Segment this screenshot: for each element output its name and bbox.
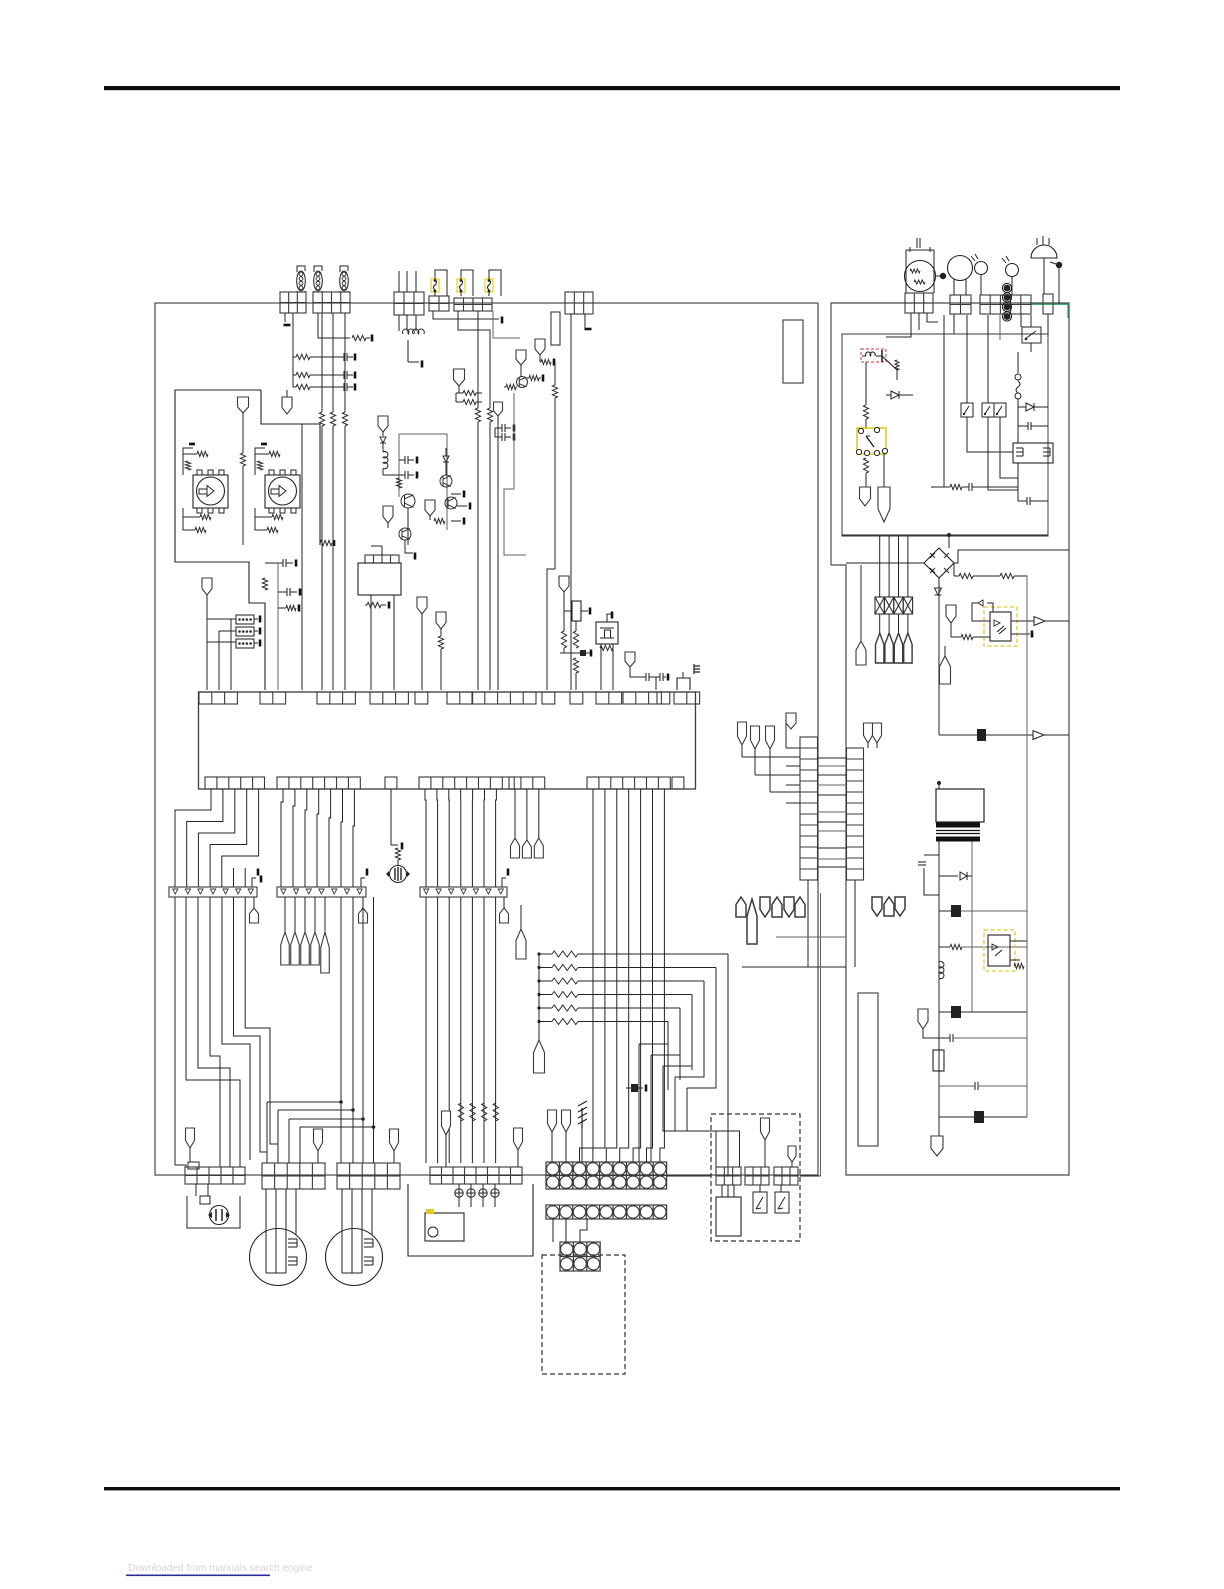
- connector CNB4: [430, 1167, 522, 1184]
- capacitor C8: [1018, 425, 1028, 427]
- wire sense 1: [321, 313, 323, 412]
- capacitor C3: [495, 427, 502, 429]
- diode D1: [380, 437, 386, 443]
- capacitor C2: [278, 591, 287, 593]
- service box (dashed): [542, 1255, 625, 1374]
- wire+flags mid: [514, 789, 516, 838]
- diode D4: [1018, 406, 1026, 408]
- transistor Q1: [517, 377, 528, 388]
- power board inner box: [842, 334, 1048, 536]
- wire M4 feed: [390, 789, 392, 845]
- diode D3: [886, 394, 891, 396]
- capacitor C11: [939, 1085, 975, 1087]
- RN1 drop wires: [727, 954, 729, 1176]
- flag N12: [436, 612, 446, 629]
- thermistor RT1: [236, 615, 254, 624]
- page bottom rule: [104, 1487, 1120, 1490]
- wire bundle A lower: [174, 897, 176, 1165]
- flag N19: [742, 756, 800, 758]
- wire sense col A: [477, 311, 479, 408]
- flag N32: [314, 1129, 323, 1151]
- terminal strip TS3: [560, 1242, 600, 1271]
- component Y2: [572, 601, 581, 621]
- resistor R15: [365, 604, 367, 606]
- motor M2 wiring: [255, 448, 265, 475]
- motor M2: [265, 475, 300, 508]
- switch SW0: [1022, 327, 1041, 343]
- ladder bottom wires: [807, 880, 809, 967]
- flag N22: [864, 723, 873, 743]
- flag N13: [559, 576, 569, 592]
- capacitor C7: [645, 673, 647, 681]
- bead FB5: [626, 1087, 631, 1089]
- capacitor C9: [1018, 500, 1027, 502]
- resistor R17: [954, 575, 959, 577]
- resistor RV9: [561, 631, 566, 648]
- bus bar BB3: [420, 887, 507, 897]
- terminal row: [451, 493, 461, 495]
- terminal dot1: [936, 275, 941, 277]
- buzzer frame: [187, 1196, 240, 1228]
- resistor RV17: [863, 458, 868, 473]
- connector CNR2: [950, 295, 971, 314]
- option box (dashed): [711, 1114, 800, 1241]
- transistor Q6: [881, 350, 883, 362]
- thermistor ticks: [254, 618, 258, 620]
- bridge wiring: [846, 562, 924, 564]
- resistor R18: [1000, 573, 1014, 578]
- flag N33: [390, 1129, 399, 1151]
- flag N5: [494, 402, 503, 416]
- resistor RV10: [573, 631, 578, 648]
- connector CNR4: [1043, 294, 1053, 314]
- relay RL2: [1013, 443, 1053, 463]
- capacitor C1: [265, 562, 283, 564]
- page top rule: [104, 86, 1120, 90]
- wire bundle B: [281, 789, 283, 887]
- connector CNB3: [337, 1163, 400, 1189]
- wire stubs above CN3: [398, 271, 400, 292]
- option box wires: [721, 1185, 723, 1197]
- spin motor SM2: [326, 1229, 383, 1286]
- inductor L3: [340, 271, 349, 291]
- flag N26: [860, 565, 862, 641]
- fuse F3: [485, 279, 493, 292]
- flag N2: [238, 397, 249, 413]
- resistor RV2: [330, 412, 335, 426]
- bar BB3 hook: [502, 878, 506, 887]
- wire+flags below BB2: [284, 897, 286, 932]
- crystal X1: [596, 622, 618, 644]
- resistor RV1: [319, 412, 324, 426]
- resistor R14: [434, 518, 445, 523]
- connector CN6: [473, 298, 492, 311]
- buzzer BZ1: [210, 1206, 229, 1225]
- bar BB2 hook: [361, 878, 365, 887]
- connector CN2: [313, 292, 350, 313]
- power board outline (right): [831, 303, 1069, 1175]
- flag N16: [362, 897, 364, 908]
- flag N36: [548, 1110, 557, 1132]
- capacitor C6: [399, 474, 405, 476]
- wire CN5 link: [458, 311, 490, 345]
- shield box: [783, 320, 803, 383]
- bottom bus: [667, 1175, 711, 1177]
- IC U1 top pins: [199, 692, 237, 704]
- resistor RV16: [863, 405, 868, 419]
- sensor body: [716, 1197, 741, 1236]
- flag N37: [562, 1110, 571, 1132]
- wire CN2 stub: [318, 313, 350, 338]
- wire CN7 drops: [570, 314, 572, 690]
- resistor RV6: [554, 362, 556, 385]
- flag N10: [425, 500, 435, 516]
- wire bundle A: [175, 789, 211, 887]
- connector CNR3: [980, 295, 1031, 314]
- resistor RV8: [438, 636, 443, 649]
- bead FB1: [939, 734, 977, 736]
- wire CN1 drop: [292, 313, 294, 387]
- ground lugs: [1004, 285, 1011, 292]
- terminal strip TS2: [546, 1205, 667, 1219]
- connector CNO3: [774, 1167, 798, 1185]
- resistor RV11: [573, 658, 578, 673]
- bead FB2: [939, 910, 951, 912]
- motor M1: [193, 475, 228, 508]
- resistor R7: [262, 578, 267, 590]
- flag N20: [755, 774, 800, 776]
- wire gray drop: [277, 563, 279, 690]
- driver block outline: [175, 390, 265, 690]
- connector CNB1: [185, 1167, 245, 1184]
- connector CN3: [394, 292, 424, 315]
- fuse F1: [431, 279, 439, 292]
- flag N3: [202, 578, 212, 595]
- bell BZ2: [1031, 245, 1057, 258]
- IC U1 body: [199, 692, 696, 789]
- switch SW1: [961, 403, 973, 417]
- flag N17: [503, 897, 505, 908]
- bus bar BB2: [277, 887, 366, 897]
- wire bundle D: [580, 789, 594, 1162]
- res-cap link: [943, 315, 945, 487]
- thermistor RT2: [236, 627, 254, 636]
- flag N8: [378, 416, 388, 432]
- inductor L1: [297, 271, 306, 291]
- flag N38: [761, 1118, 770, 1140]
- wire CN4 link: [433, 311, 499, 319]
- ladder rungs: [818, 757, 847, 759]
- flag N34: [442, 1111, 451, 1135]
- arrow out1: [1033, 731, 1044, 740]
- wire sense 3: [344, 313, 346, 412]
- wire bundle C: [425, 789, 426, 887]
- bead FB3: [939, 1011, 951, 1013]
- connector CN7: [565, 292, 593, 314]
- net trace (green): [1031, 303, 1068, 305]
- connector CNO2: [745, 1167, 769, 1185]
- thermistor RT3: [236, 639, 254, 648]
- flag N23: [873, 723, 882, 743]
- footer link underline: [126, 1575, 270, 1577]
- wire CNR2 stubs: [953, 314, 955, 334]
- resistor R11: [504, 386, 506, 388]
- switch SW5: [775, 1192, 789, 1213]
- transformer T1: [936, 789, 984, 822]
- opto U3: [984, 930, 1015, 971]
- chassis ground: [581, 1128, 583, 1162]
- flag N28: [944, 646, 946, 656]
- inductor L6: [939, 962, 944, 979]
- fan motor FM1: [905, 261, 936, 292]
- component K1: [551, 312, 560, 345]
- varistor bank: [875, 597, 884, 614]
- wire bundle C2: [425, 897, 427, 1163]
- flag N21: [770, 791, 800, 793]
- wire JU1 col: [865, 362, 867, 405]
- inductor L5: [383, 452, 388, 469]
- flag N4: [454, 369, 465, 386]
- flag N24: [860, 487, 871, 506]
- header ladder CN10: [800, 737, 818, 880]
- flag N11: [417, 597, 427, 614]
- bridge BR1: [924, 548, 954, 578]
- resistor R6: [320, 540, 332, 545]
- svg-text:Downloaded from manuals search: Downloaded from manuals search engine: [128, 1563, 313, 1574]
- spin motor SM1: [250, 1229, 307, 1286]
- flag N29: [918, 1009, 928, 1029]
- motor circle M3: [948, 256, 973, 281]
- relay RL1: [857, 428, 886, 454]
- pump motor M4: [390, 866, 407, 883]
- relay K2 pins: [365, 555, 399, 563]
- fuse F4: [933, 1050, 944, 1071]
- switch SW4: [753, 1192, 767, 1213]
- connector CNO1: [716, 1167, 741, 1185]
- capacitor C5: [399, 459, 405, 461]
- wire sense col B: [489, 345, 491, 408]
- display frame: [408, 1184, 533, 1256]
- right trunk: [1026, 576, 1028, 1117]
- wire CNR3 stubs: [1020, 314, 1022, 327]
- wire CN1 stub: [284, 313, 286, 322]
- hold cap CE1: [858, 993, 878, 1146]
- wire CNR1 drops: [886, 313, 911, 337]
- top bus wires: [493, 311, 520, 338]
- tall flag N40: [747, 899, 757, 944]
- IC U1 bottom pins: [205, 777, 265, 789]
- terminal dot2: [1050, 262, 1056, 264]
- display board: [425, 1213, 464, 1241]
- resistor-cap row 3: [293, 386, 296, 388]
- connector CN1: [280, 292, 306, 313]
- ladder left stubs: [786, 747, 800, 749]
- inductor L2: [314, 271, 323, 291]
- RN1 bus: [538, 954, 540, 1040]
- inner box bottom link: [842, 534, 1048, 536]
- resistor RV7: [396, 478, 401, 488]
- terminal J1: [284, 324, 291, 327]
- inductor L4: [403, 329, 415, 334]
- resistor-cap row 1: [293, 356, 296, 358]
- flags below ladder: [736, 897, 746, 917]
- opto U2 wiring: [1011, 620, 1034, 622]
- capacitor C10: [939, 1037, 950, 1039]
- connector CN4: [429, 296, 449, 311]
- resistor R20: [939, 946, 950, 948]
- wire M-col: [264, 603, 266, 690]
- junction bar: [560, 652, 591, 654]
- flag N27: [946, 605, 956, 623]
- wire B extra: [340, 897, 342, 1163]
- capacitor C4: [495, 436, 502, 438]
- transformer wires: [938, 842, 940, 1149]
- bus bar BB1: [169, 887, 257, 897]
- flag N6: [516, 350, 526, 365]
- jumper JU1: [861, 349, 886, 362]
- resistor R12: [527, 377, 529, 379]
- wire motor2 leads: [341, 1189, 343, 1273]
- switch SW2: [982, 403, 994, 417]
- relay K2 wires: [370, 595, 372, 690]
- snubber: [924, 854, 939, 856]
- fuse F2: [457, 279, 465, 292]
- resistors RV12-15: [458, 1103, 463, 1121]
- bead FB4: [939, 1116, 974, 1118]
- wire motor1 leads: [265, 1189, 267, 1273]
- resistor RV4: [475, 408, 480, 422]
- flag N18: [786, 713, 796, 729]
- transistor Q2: [401, 494, 415, 508]
- LED bank: [458, 1184, 460, 1207]
- wire trio bus: [207, 618, 236, 620]
- lamp LP1: [975, 262, 988, 275]
- connector CNR1: [905, 293, 933, 313]
- wire Q2 drop: [407, 508, 409, 545]
- transistor Q4: [445, 497, 457, 509]
- switch SW3: [994, 403, 1006, 417]
- subcircuit frame: [399, 434, 447, 530]
- opto U2 diode loop: [987, 603, 993, 612]
- resistor RV5: [487, 408, 492, 422]
- flag N35: [514, 1128, 523, 1150]
- motor M1 wiring: [183, 448, 193, 475]
- terminal strip TS1: [546, 1162, 667, 1189]
- diode D2: [443, 456, 449, 462]
- wire gray jog: [504, 393, 526, 555]
- flag N15: [253, 897, 255, 908]
- flag N31: [186, 1128, 195, 1148]
- breaker CB1: [1017, 352, 1019, 373]
- resistor R13: [540, 361, 541, 363]
- flag N14: [625, 652, 635, 667]
- bar BB1 hook: [252, 878, 256, 887]
- lamp LP2: [1006, 264, 1019, 277]
- resistor-cap row 2: [293, 374, 296, 376]
- component Y3: [677, 678, 690, 690]
- resistor RV3: [342, 412, 347, 426]
- flag N25: [883, 454, 885, 487]
- resistor R9: [456, 392, 463, 394]
- transistor Q5: [399, 528, 411, 540]
- resistor R19: [961, 634, 973, 639]
- flag N7: [535, 339, 545, 355]
- flag N30: [938, 1136, 940, 1148]
- flag N9: [383, 506, 393, 523]
- relay K2: [358, 563, 401, 595]
- resistor R10: [456, 401, 463, 403]
- wire L4 stub: [398, 315, 400, 331]
- connector CN5: [454, 298, 473, 311]
- main board outline (left): [155, 303, 818, 1175]
- resistor R8: [278, 607, 286, 609]
- flag N1: [286, 390, 288, 397]
- TS wires: [552, 1219, 554, 1242]
- resistor network RN1: [539, 953, 552, 955]
- resistor R4: [352, 335, 366, 340]
- resistor R5: [240, 453, 245, 466]
- opto U2: [984, 607, 1017, 646]
- connector CNB2: [262, 1163, 325, 1189]
- wire sense 2: [332, 313, 334, 412]
- transistor Q3: [440, 475, 452, 487]
- diode D5: [935, 588, 942, 595]
- flag N39: [788, 1146, 796, 1162]
- varistor flags: [876, 633, 884, 663]
